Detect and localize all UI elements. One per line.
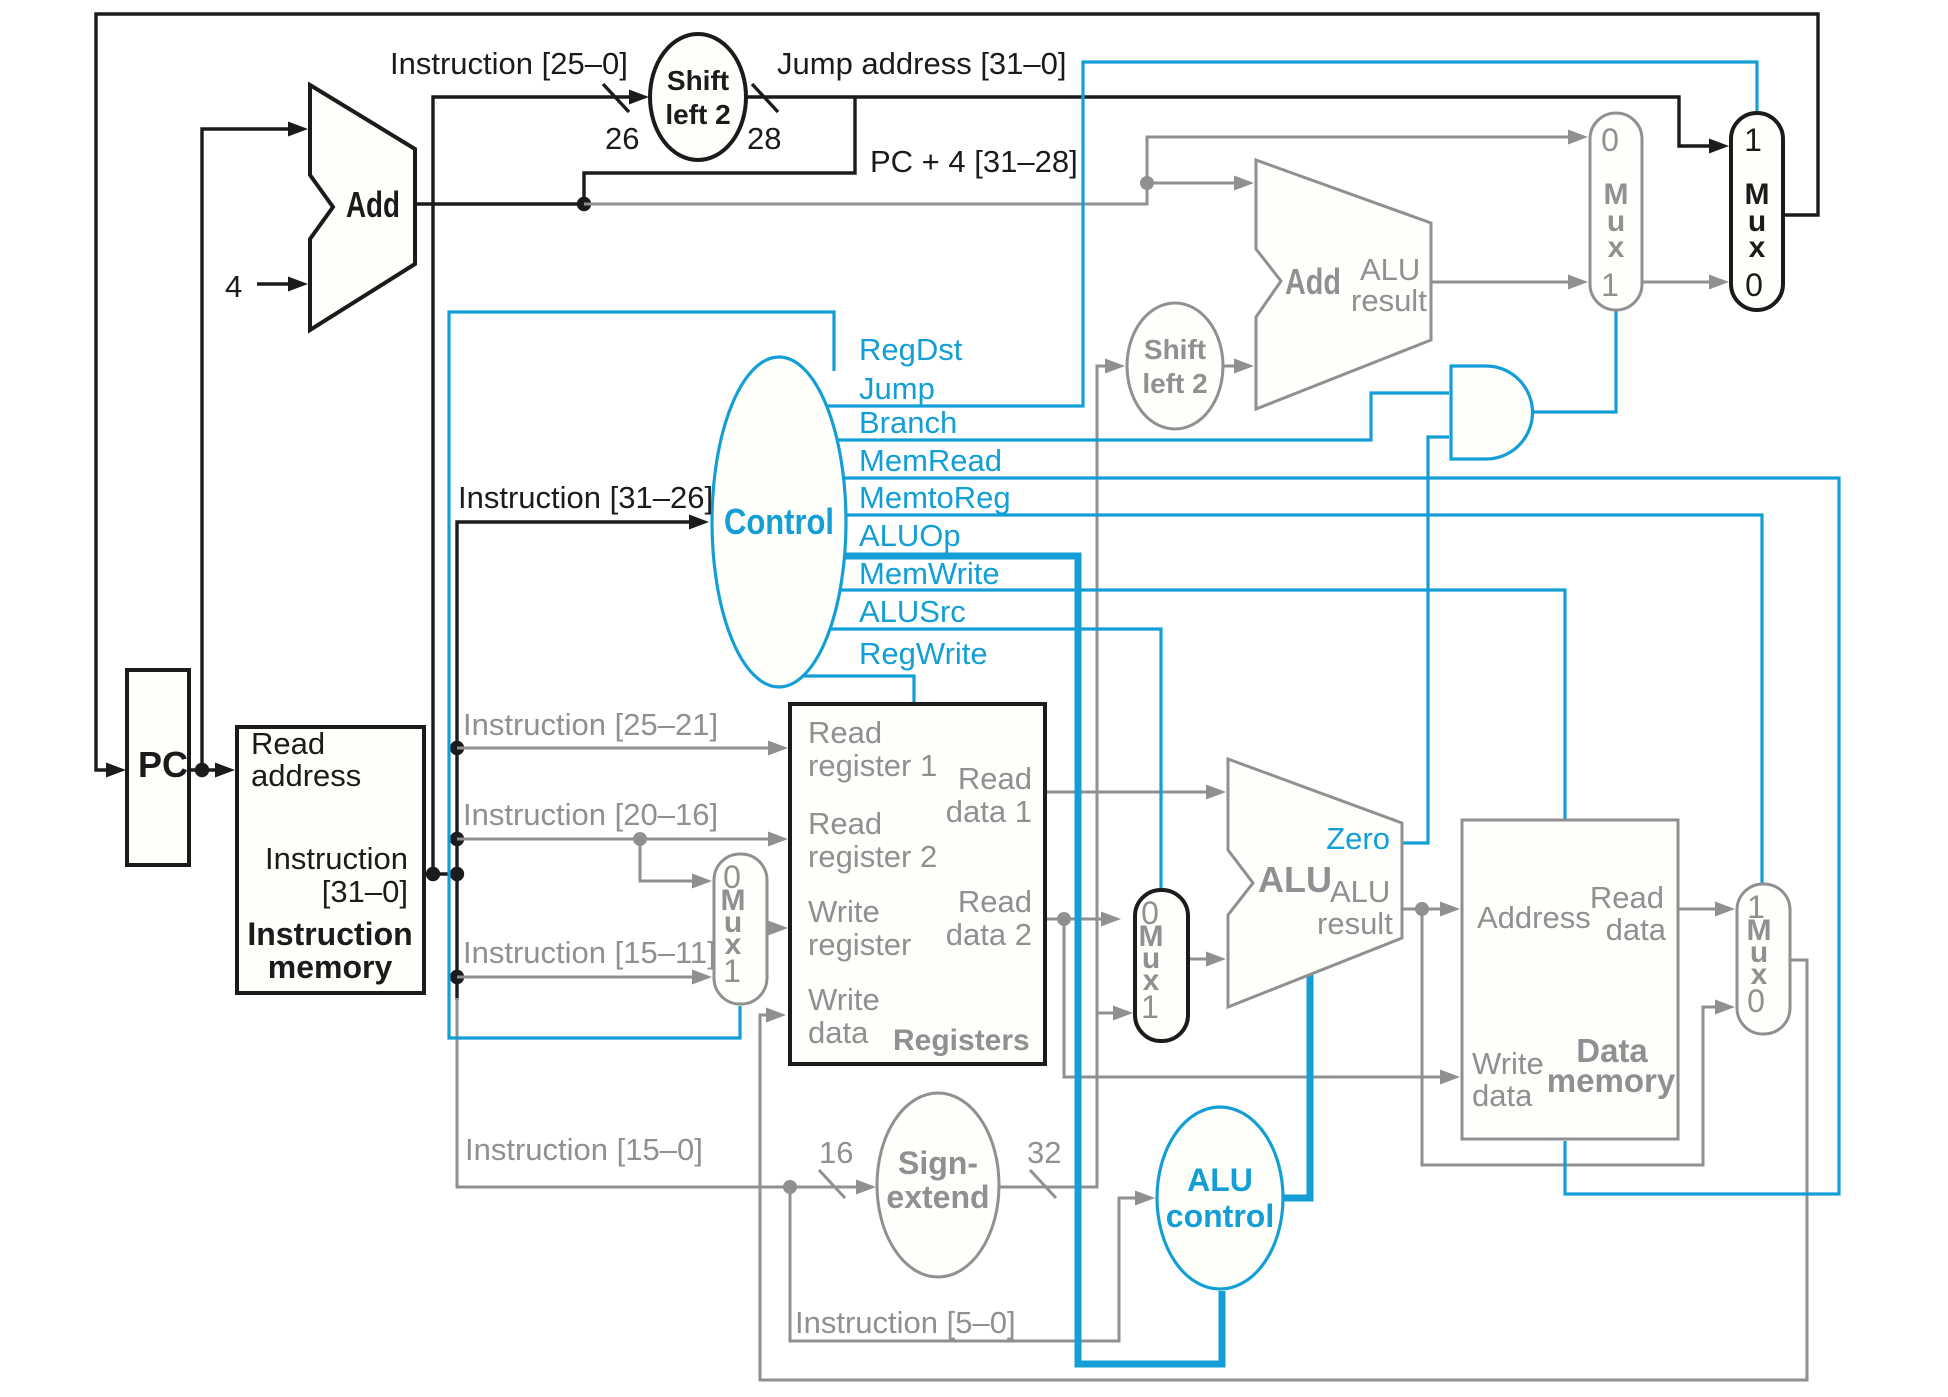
wire: arrowhead into right Mux 1 bbox=[1715, 902, 1735, 917]
wire: Shift left 2 output into branch Add bottom input bbox=[1223, 365, 1236, 368]
shift left 2 oval (branch) bbox=[1127, 303, 1223, 429]
wire: instruction bus spine (black part) to Control bbox=[457, 522, 691, 874]
AND gate (branch and zero) bbox=[1451, 366, 1533, 459]
wire: Read data 2 branch to data memory Write data bbox=[1064, 919, 1442, 1077]
svg-text:0: 0 bbox=[1747, 983, 1765, 1019]
svg-text:Instruction [25–21]: Instruction [25–21] bbox=[463, 707, 718, 742]
node: junction dot PC+4 at branch adder bbox=[1140, 176, 1154, 190]
wire: ALUSrc mux output into ALU input 2 bbox=[1188, 958, 1208, 961]
svg-text:x: x bbox=[1608, 231, 1625, 264]
wire: arrowhead of 4 into Add bbox=[288, 277, 308, 292]
svg-text:left 2: left 2 bbox=[1142, 368, 1207, 399]
wire: arrowhead into Write register bbox=[768, 921, 788, 936]
svg-text:1: 1 bbox=[1601, 267, 1619, 303]
svg-text:Shift: Shift bbox=[1144, 334, 1206, 365]
wire: arrowhead into ALU input 2 bbox=[1206, 952, 1226, 967]
node: junction dot on PC output bbox=[195, 763, 209, 777]
svg-text:left 2: left 2 bbox=[665, 99, 730, 130]
wire: ALU control output to ALU select (thick) bbox=[1283, 975, 1310, 1198]
svg-text:extend: extend bbox=[886, 1179, 989, 1215]
svg-text:control: control bbox=[1166, 1198, 1274, 1234]
wire: gray Mux output to black Mux input 0 bbox=[1642, 281, 1711, 284]
wire: arrowhead into Shift left 2 gray bbox=[1105, 359, 1125, 374]
wire: MemRead control path to data memory read port bbox=[843, 478, 1839, 1194]
svg-text:Write: Write bbox=[808, 982, 880, 1017]
svg-text:Read: Read bbox=[1590, 880, 1664, 915]
node: junction dot Instruction[5-0] bbox=[783, 1180, 797, 1194]
wire: ALU result branch to right Mux input 0 bbox=[1422, 909, 1717, 1165]
ALU main bbox=[1228, 759, 1402, 1007]
svg-text:RegDst: RegDst bbox=[859, 332, 963, 367]
svg-text:register: register bbox=[808, 927, 911, 962]
svg-text:1: 1 bbox=[1141, 989, 1159, 1025]
svg-text:ALU: ALU bbox=[1187, 1162, 1253, 1198]
wire: arrowhead into Read register 1 bbox=[768, 741, 788, 756]
svg-text:Write: Write bbox=[1472, 1046, 1544, 1081]
svg-text:register 2: register 2 bbox=[808, 839, 937, 874]
wire: arrowhead into Read register 2 bbox=[768, 832, 788, 847]
svg-text:Address: Address bbox=[1477, 900, 1591, 935]
svg-text:[31–0]: [31–0] bbox=[322, 874, 408, 909]
wire: ALU result to data memory Address bbox=[1402, 908, 1442, 911]
wire: arrowhead Instruction[31-26] into Control bbox=[689, 515, 709, 530]
wire: ALUOp thick control path to ALU control bbox=[844, 556, 1222, 1364]
svg-text:Read: Read bbox=[958, 761, 1032, 796]
node: junction dot instruction bus left bbox=[426, 867, 440, 881]
svg-text:0: 0 bbox=[1745, 267, 1763, 303]
svg-text:data 2: data 2 bbox=[946, 917, 1032, 952]
svg-text:Branch: Branch bbox=[859, 405, 957, 440]
svg-text:Add: Add bbox=[1285, 261, 1341, 302]
wire: arrowhead into right Mux 0 bbox=[1715, 1000, 1735, 1015]
wire: arrowhead into Sign-extend bbox=[856, 1180, 876, 1195]
wire: arrowhead into Write data of data memory bbox=[1440, 1070, 1460, 1085]
wire: arrowhead into instruction memory read address bbox=[215, 763, 235, 778]
data memory box bbox=[1462, 820, 1678, 1139]
wire: RegDst mux output to Write register bbox=[767, 927, 770, 930]
mux: RegDst write register select bbox=[714, 854, 767, 1004]
node: junction dot PC+4 bbox=[577, 197, 591, 211]
wire: arrowhead into Shift left 2 bbox=[629, 90, 649, 105]
wire: PC+4 into branch Add top input bbox=[1147, 182, 1236, 185]
svg-text:26: 26 bbox=[605, 121, 639, 156]
wire: Zero output of ALU to AND gate bbox=[1402, 437, 1449, 843]
svg-text:Instruction [15–11]: Instruction [15–11] bbox=[463, 935, 716, 970]
svg-text:Instruction [31–26]: Instruction [31–26] bbox=[458, 480, 713, 515]
wire: constant 4 into Add bottom input bbox=[257, 282, 290, 285]
svg-text:Jump address [31–0]: Jump address [31–0] bbox=[777, 46, 1067, 81]
svg-text:result: result bbox=[1351, 283, 1427, 318]
svg-text:data: data bbox=[1606, 912, 1667, 947]
svg-text:Write: Write bbox=[808, 894, 880, 929]
svg-text:Instruction [20–16]: Instruction [20–16] bbox=[463, 797, 718, 832]
node: junction dot Instruction[20-16] bbox=[450, 832, 464, 846]
wire: arrowhead into Address bbox=[1440, 902, 1460, 917]
node: junction dot Instruction[25-21] bbox=[450, 741, 464, 755]
wire: arrowhead into black Mux input 1 bbox=[1709, 139, 1729, 154]
wire: RegWrite control path to Registers bbox=[803, 676, 914, 703]
wire: arrowhead into Add top input bbox=[288, 122, 308, 137]
wire: arrowhead into black Mux 0 bbox=[1709, 275, 1729, 290]
wire: MemWrite control path to data memory write port bbox=[840, 590, 1565, 819]
svg-text:Instruction [25–0]: Instruction [25–0] bbox=[390, 46, 628, 81]
svg-text:data: data bbox=[1472, 1078, 1533, 1113]
svg-text:ALU: ALU bbox=[1330, 874, 1390, 909]
svg-text:PC: PC bbox=[138, 744, 188, 785]
svg-text:Instruction: Instruction bbox=[265, 841, 408, 876]
ALU control oval bbox=[1157, 1107, 1283, 1289]
wire: branch Add ALU result to top Mux input 1 bbox=[1431, 281, 1570, 284]
wire: Instruction[25-0] up and right to Shift left 2 bbox=[433, 97, 631, 874]
svg-text:Jump: Jump bbox=[859, 371, 935, 406]
wire: arrowhead into gray Mux 1 bbox=[1568, 275, 1588, 290]
svg-text:result: result bbox=[1317, 906, 1393, 941]
svg-text:Registers: Registers bbox=[893, 1024, 1030, 1057]
svg-text:Zero: Zero bbox=[1326, 821, 1390, 856]
svg-text:Read: Read bbox=[958, 884, 1032, 919]
sign-extend oval bbox=[877, 1093, 999, 1277]
wire: MemtoReg control path to right Mux select bbox=[846, 515, 1762, 883]
svg-text:Instruction: Instruction bbox=[247, 916, 412, 952]
wire: arrowhead into ALU input 1 bbox=[1206, 785, 1226, 800]
wire: ALUSrc control path to ALUSrc mux select bbox=[831, 629, 1161, 889]
node: junction dot ALU result bbox=[1415, 902, 1429, 916]
wire: arrowhead into ALU control bbox=[1135, 1191, 1155, 1206]
svg-text:Read: Read bbox=[808, 806, 882, 841]
PC register box bbox=[127, 670, 189, 865]
wire: arrowhead into top gray Mux input 0 bbox=[1568, 130, 1588, 145]
svg-text:ALU: ALU bbox=[1360, 252, 1420, 287]
wire: PC output to instruction memory bbox=[189, 768, 217, 771]
mux: MemtoReg select (right) bbox=[1737, 884, 1790, 1034]
svg-text:ALU: ALU bbox=[1258, 859, 1332, 900]
svg-text:Shift: Shift bbox=[667, 65, 729, 96]
wire: arrowhead into branch Add bbox=[1234, 176, 1254, 191]
shift left 2 oval (jump) bbox=[650, 34, 746, 160]
svg-text:data: data bbox=[808, 1015, 869, 1050]
wire: branch T into ALUSrc mux input 1 bbox=[1097, 1012, 1115, 1015]
wire: Branch control path to AND gate bbox=[837, 393, 1449, 440]
wire: instruction bus spine lower black part bbox=[455, 874, 458, 1000]
control unit oval bbox=[712, 357, 846, 687]
registers block bbox=[790, 704, 1045, 1064]
svg-text:Read: Read bbox=[251, 726, 325, 761]
node: junction dot Read data 2 bbox=[1057, 912, 1071, 926]
svg-text:16: 16 bbox=[819, 1135, 853, 1170]
instruction memory box bbox=[237, 727, 424, 993]
wire: Instruction[20-16] to Read register 2 bbox=[457, 838, 770, 841]
wire: jump address line from Shift left 2 to top-right Mux input 1 bbox=[746, 97, 1711, 146]
svg-text:Read: Read bbox=[808, 715, 882, 750]
node: junction dot on Instruction[20-16] bbox=[633, 832, 647, 846]
svg-text:MemRead: MemRead bbox=[859, 443, 1002, 478]
wire: Instruction[5-0] around to ALU control bbox=[790, 1187, 1137, 1341]
mux: jump address select (black) bbox=[1731, 113, 1783, 310]
svg-text:PC + 4 [31–28]: PC + 4 [31–28] bbox=[870, 144, 1078, 179]
wire: Add output (PC+4) bbox=[415, 202, 584, 205]
svg-text:memory: memory bbox=[268, 949, 393, 985]
svg-text:Control: Control bbox=[724, 501, 834, 542]
svg-text:4: 4 bbox=[225, 269, 242, 304]
svg-text:Instruction [5–0]: Instruction [5–0] bbox=[795, 1305, 1016, 1340]
svg-text:MemtoReg: MemtoReg bbox=[859, 480, 1011, 515]
wire: arrowhead into RegDst mux 1 bbox=[692, 970, 712, 985]
wire: sign-extend output up to Shift left 2 (branch offset) bbox=[999, 366, 1107, 1187]
mux: PC+4 / branch target (gray) bbox=[1590, 113, 1642, 310]
wire: arrowhead into Registers Write data bbox=[766, 1008, 786, 1023]
wire: Instruction[15-11] into RegDst mux input 1 bbox=[457, 976, 694, 979]
adder Add (PC+4) bbox=[310, 85, 415, 330]
svg-text:MemWrite: MemWrite bbox=[859, 556, 1000, 591]
wire: arrowhead into ALUSrc mux 1 bbox=[1113, 1006, 1133, 1021]
node: junction dot Instruction[15-11] bbox=[450, 970, 464, 984]
wire: PC+4[31-28] tap up to jump address line bbox=[584, 97, 855, 204]
wire: Jump control path to black Mux select bbox=[826, 62, 1757, 406]
wire: Instruction[20-16] branch down into RegDst mux input 0 bbox=[640, 839, 694, 881]
svg-text:1: 1 bbox=[1744, 122, 1762, 158]
wire: Read data 1 to ALU bbox=[1045, 791, 1208, 794]
svg-text:register 1: register 1 bbox=[808, 748, 937, 783]
mux: ALUSrc select bbox=[1135, 890, 1188, 1041]
wire: instruction bus spine gray tail and Instruction[15-0] to sign-extend bbox=[457, 998, 858, 1187]
wire: bus slash 16 bbox=[819, 1170, 845, 1198]
wire: instruction memory output bus bbox=[424, 872, 457, 875]
svg-text:ALUSrc: ALUSrc bbox=[859, 594, 966, 629]
wire: bus slash 26 bbox=[603, 84, 629, 112]
wire: write-back path from right Mux to Registers Write data bbox=[760, 960, 1807, 1380]
wire: arrowhead into RegDst mux 0 bbox=[692, 874, 712, 889]
svg-text:28: 28 bbox=[747, 121, 781, 156]
svg-text:Sign-: Sign- bbox=[898, 1145, 978, 1181]
node: junction dot instruction bus right bbox=[450, 867, 464, 881]
svg-text:address: address bbox=[251, 758, 361, 793]
svg-text:data 1: data 1 bbox=[946, 794, 1032, 829]
wire: PC-source feedback loop (mux output, top frame, down to PC input) bbox=[96, 14, 1818, 770]
wire: arrowhead into branch Add bottom bbox=[1234, 359, 1254, 374]
wire: Read data 2 to ALUSrc mux input 0 bbox=[1045, 918, 1103, 921]
svg-text:1: 1 bbox=[723, 953, 741, 989]
svg-text:RegWrite: RegWrite bbox=[859, 636, 988, 671]
adder Add (branch target) bbox=[1256, 160, 1431, 409]
wire: PC output up to Add input bbox=[202, 129, 290, 770]
wire: RegDst control path bbox=[449, 312, 834, 1038]
wire: data memory Read data to right Mux input 1 bbox=[1678, 908, 1717, 911]
svg-text:0: 0 bbox=[1601, 122, 1619, 158]
wire: bus slash 32 bbox=[1030, 1170, 1056, 1198]
wire: AND gate output to gray Mux select bbox=[1532, 311, 1616, 412]
svg-text:x: x bbox=[1749, 231, 1766, 264]
wire: arrowhead into ALUSrc mux 0 bbox=[1101, 912, 1121, 927]
wire: arrowhead into PC bbox=[106, 763, 126, 778]
svg-text:ALUOp: ALUOp bbox=[859, 518, 961, 553]
wire: bus slash 28 bbox=[752, 84, 778, 112]
svg-text:Instruction [15–0]: Instruction [15–0] bbox=[465, 1132, 703, 1167]
svg-text:32: 32 bbox=[1027, 1135, 1061, 1170]
svg-text:memory: memory bbox=[1547, 1062, 1676, 1099]
wire: PC+4 gray to second Add and Mux bbox=[584, 137, 1570, 204]
wire: Instruction[25-21] to Read register 1 bbox=[457, 747, 770, 750]
svg-text:Add: Add bbox=[346, 184, 400, 225]
